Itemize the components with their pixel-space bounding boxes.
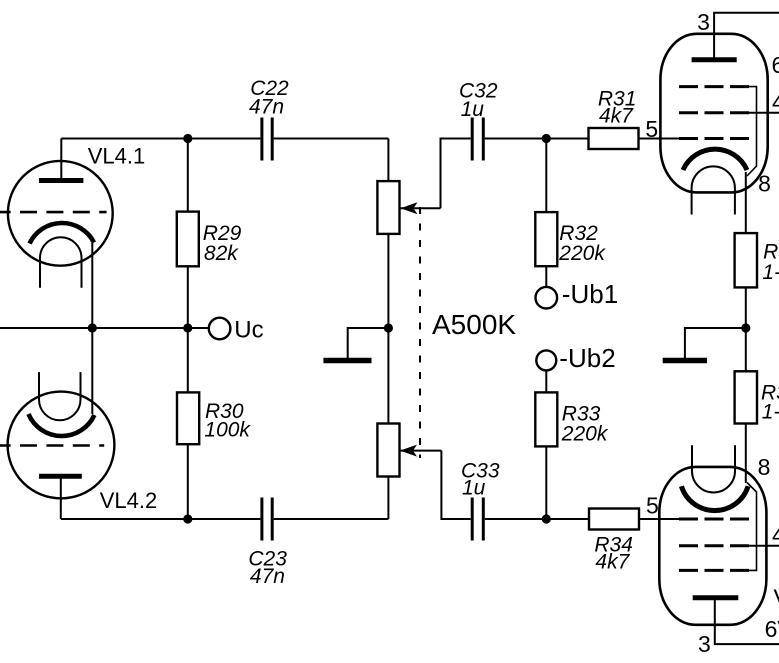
pot2 wiper wire	[400, 450, 442, 452]
V2 grid g3 row (dashed)	[679, 85, 749, 88]
svg-text:5: 5	[645, 116, 658, 142]
resistor R32	[535, 139, 557, 287]
resistor R34	[589, 509, 639, 530]
VL4.1 grid (dashed)	[0, 211, 107, 214]
svg-text:5: 5	[646, 493, 659, 519]
wire R31 to tube grid	[639, 138, 680, 140]
wire cathode to R35	[745, 172, 747, 233]
capacitor C22	[262, 118, 272, 161]
svg-text:-Ub1: -Ub1	[562, 279, 618, 309]
wire R35 to junction	[745, 287, 747, 371]
node junction top rail / R29	[183, 134, 192, 143]
ground left	[323, 328, 388, 361]
ground right	[663, 328, 746, 361]
svg-text:1u: 1u	[462, 477, 486, 500]
svg-text:3: 3	[698, 631, 711, 657]
wire wiper2 riser to C33	[441, 451, 470, 519]
svg-text:3: 3	[697, 9, 710, 35]
VL4.2 plate bar	[39, 474, 82, 479]
VL4.1 heater loop	[40, 237, 82, 287]
V2 plate lead wire (pin 3)	[714, 13, 779, 60]
svg-text:Uc: Uc	[234, 316, 263, 343]
wire g2 to pin 4	[746, 112, 779, 114]
tube V3 bottom right envelope	[659, 467, 766, 625]
V3 grid g3 row (dashed)	[679, 569, 749, 572]
svg-text:VL4.2: VL4.2	[100, 488, 158, 513]
V2 grid g1 row (dashed)	[679, 137, 749, 140]
V2 cathode arc	[683, 149, 747, 170]
VL4.2 cathode arc	[29, 414, 95, 436]
V2 g3 to cathode link	[746, 87, 757, 176]
capacitor C23	[262, 498, 272, 541]
svg-text:1u: 1u	[461, 98, 485, 121]
wire wiper1 riser to C32	[441, 139, 471, 209]
VL4.2 grid (dashed)	[0, 444, 104, 447]
svg-text:82k: 82k	[204, 242, 239, 265]
tube VL4.2	[0, 372, 114, 519]
wire top rail left	[61, 138, 260, 140]
V3 plate lead wire (pin 3)	[715, 598, 779, 644]
tube VL4.1	[0, 139, 113, 288]
svg-text:1-: 1-	[762, 401, 779, 424]
svg-text:8: 8	[758, 454, 771, 480]
node junction cathodes on mid rail	[88, 323, 97, 332]
svg-text:1-: 1-	[762, 261, 779, 284]
V2 heater loop	[692, 166, 735, 214]
wire g2 to pin 4 (bottom)	[746, 545, 779, 547]
V3 plate bar	[693, 595, 739, 600]
capacitor C32	[472, 118, 483, 161]
resistor R31	[589, 128, 639, 149]
V2 plate bar	[692, 57, 737, 62]
node junction top / R32	[542, 134, 551, 143]
tube V2 top right envelope	[660, 34, 767, 193]
resistor R35	[735, 233, 757, 287]
pot1 wiper arrow	[401, 202, 418, 214]
wire R34 to tube grid	[639, 518, 679, 520]
wire cathode link VL4.1/VL4.2	[91, 243, 93, 414]
V3 cathode arc	[681, 486, 748, 510]
node Uc terminal	[209, 318, 231, 340]
potentiometer A500K section 2	[377, 328, 470, 519]
node junction right rail / ground	[741, 323, 750, 332]
svg-text:4k7: 4k7	[595, 550, 630, 573]
wire C33 to R34	[485, 518, 589, 520]
V2 grid g2 row (dashed)	[679, 111, 749, 114]
resistor R29	[177, 139, 199, 329]
svg-text:220k: 220k	[558, 242, 606, 265]
wire mid rail	[0, 327, 209, 329]
svg-text:-Ub2: -Ub2	[559, 343, 615, 373]
node -Ub1 terminal	[536, 287, 558, 309]
svg-text:4: 4	[772, 89, 779, 115]
capacitor C33	[472, 498, 483, 541]
svg-text:6V: 6V	[765, 616, 779, 642]
VL4.1 plate lead wire	[60, 139, 62, 181]
svg-text:6: 6	[772, 52, 779, 78]
svg-text:220k: 220k	[561, 422, 609, 445]
wire C32 to R31	[485, 138, 589, 140]
node junction pot mid / ground	[384, 323, 393, 332]
VL4.2 heater loop	[39, 372, 81, 420]
wire bottom rail to potentiometer	[274, 518, 389, 520]
svg-text:8: 8	[758, 170, 771, 196]
svg-text:V: V	[774, 585, 779, 611]
svg-text:4: 4	[772, 522, 779, 548]
node -Ub2 terminal	[536, 350, 556, 370]
svg-text:47n: 47n	[249, 96, 284, 119]
V3 grid g1 row (dashed)	[679, 518, 749, 521]
svg-text:A500K: A500K	[432, 309, 516, 340]
wire bottom rail left	[61, 518, 261, 520]
VL4.1 plate bar	[39, 178, 83, 183]
svg-text:100k: 100k	[204, 418, 251, 441]
pot gang link (dashed)	[419, 207, 421, 458]
svg-text:47n: 47n	[250, 565, 285, 588]
V3 g3 to cathode link	[746, 483, 757, 571]
V3 grid g2 row (dashed)	[679, 544, 749, 547]
resistor R30	[177, 328, 199, 519]
pot1 wiper wire	[400, 207, 441, 209]
node junction bottom rail / R30	[183, 514, 192, 523]
wire R36 to bottom tube cathode	[745, 424, 747, 484]
pot2 wiper arrow	[400, 445, 417, 457]
resistor R36	[735, 371, 757, 423]
node junction bottom / R33	[542, 514, 551, 523]
VL4.2 plate lead wire	[60, 476, 62, 519]
svg-text:VL4.1: VL4.1	[88, 143, 146, 168]
VL4.1 cathode arc	[30, 223, 95, 244]
svg-text:4k7: 4k7	[599, 105, 634, 128]
node junction mid rail / R29 R30	[183, 323, 192, 332]
wire top rail to potentiometer	[274, 138, 389, 140]
resistor R33	[535, 370, 557, 519]
V3 heater loop	[692, 445, 735, 492]
potentiometer A500K section 1	[377, 139, 470, 329]
